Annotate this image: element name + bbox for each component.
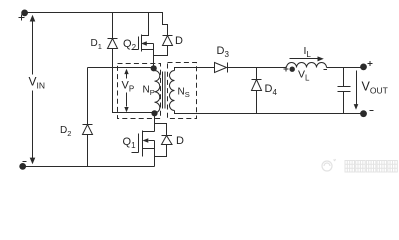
svg-text:D: D — [175, 35, 183, 47]
svg-text:D: D — [176, 135, 184, 147]
